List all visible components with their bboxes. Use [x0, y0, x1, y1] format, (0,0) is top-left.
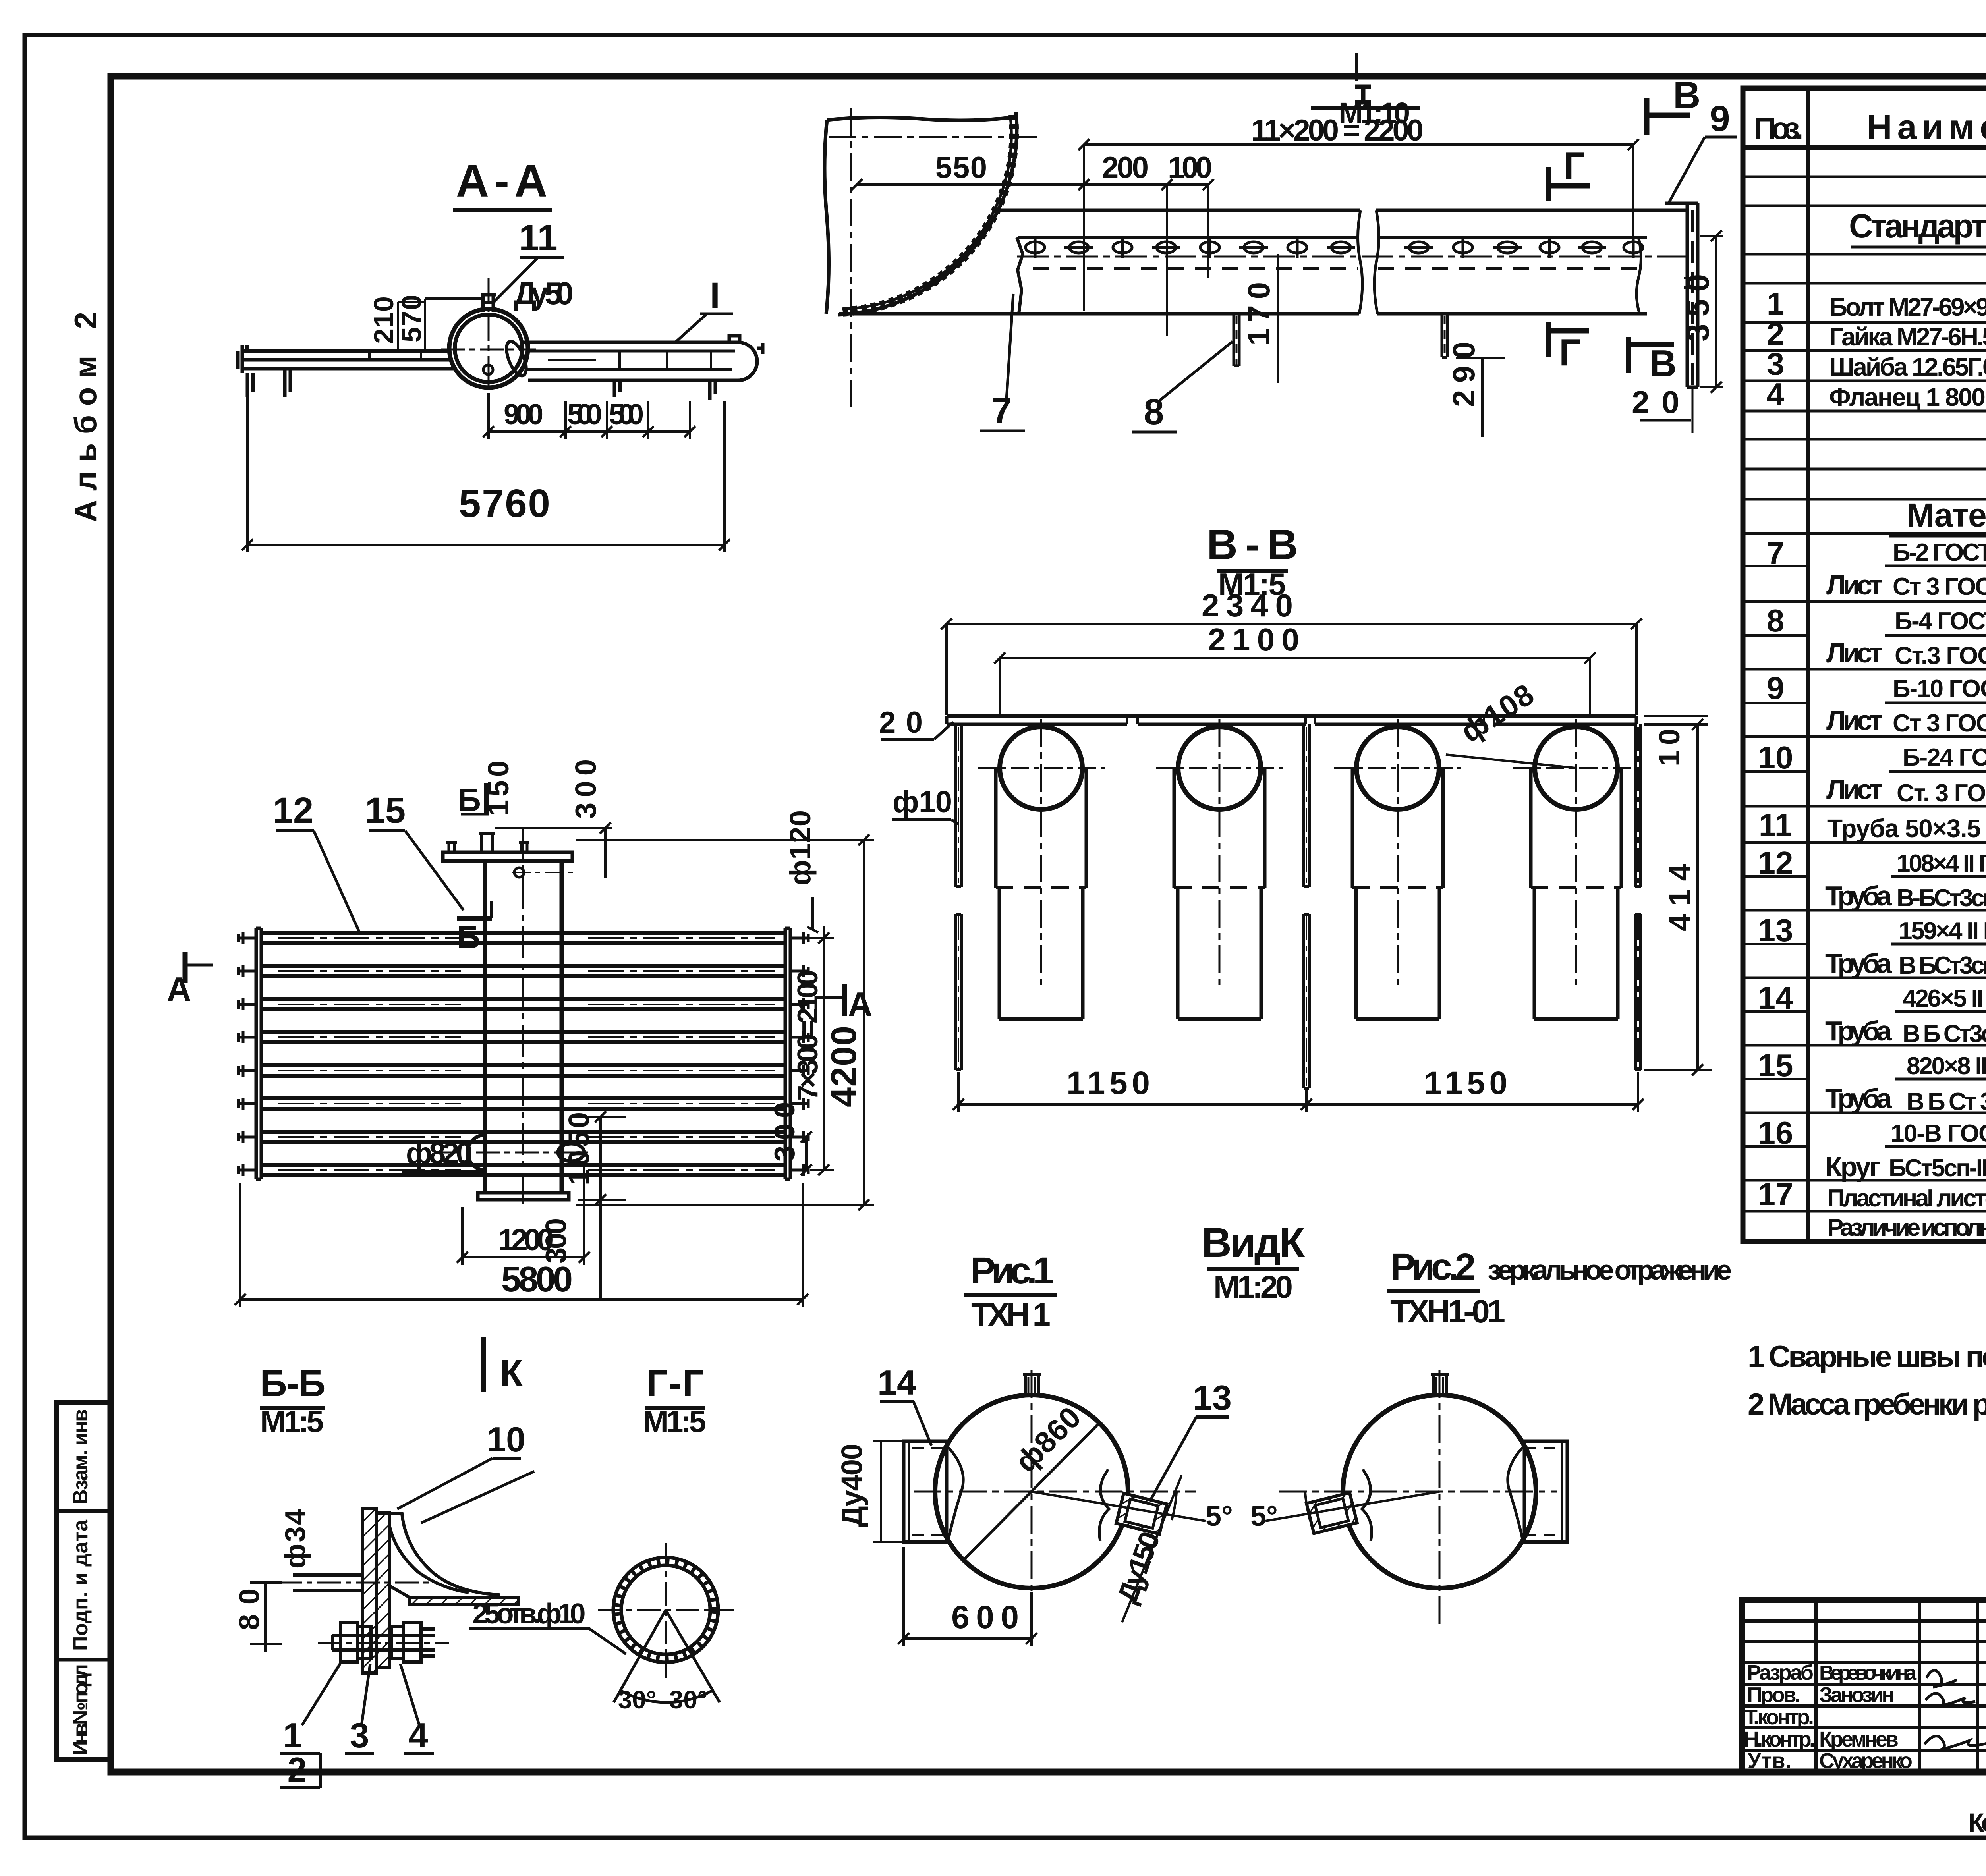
svg-text:10: 10	[1653, 729, 1686, 766]
pipe bottom edge	[839, 312, 1647, 316]
hidden line below holes	[1033, 267, 1644, 270]
svg-text:900: 900	[504, 399, 543, 430]
dim 1050 and 300 chain	[572, 1111, 626, 1299]
svg-text:Копировал: Боброва: Копировал: Боброва	[1968, 1808, 1986, 1837]
fig1 top stub	[1023, 1375, 1041, 1395]
bolt holes row	[1026, 237, 1643, 258]
fig2 centerlines	[1279, 1491, 1557, 1493]
svg-text:ф860: ф860	[1009, 1400, 1088, 1479]
main view tube row 5 right bolt	[790, 1065, 808, 1077]
section mark G upper	[1548, 167, 1590, 201]
svg-text:Фланец 1 800 2.5 Ст25ГОСТ12820: Фланец 1 800 2.5 Ст25ГОСТ12820-80	[1829, 383, 1986, 411]
svg-text:Стандартные изделия: Стандартные изделия	[1849, 207, 1986, 245]
spec table fraction bars	[1885, 566, 1986, 1146]
svg-text:Н.контр.: Н.контр.	[1744, 1727, 1815, 1751]
B-B tube unit 2 circle f108	[1178, 727, 1261, 809]
label 11 leader	[483, 257, 564, 303]
title block grid	[1742, 1600, 1986, 1772]
main view hole on column	[514, 868, 524, 877]
main view left header plate	[256, 928, 261, 1179]
main view tube row 2	[261, 966, 785, 976]
svg-text:Веревочкина: Веревочкина	[1819, 1662, 1917, 1685]
section mark G lower	[1548, 322, 1589, 357]
svg-text:Занозин: Занозин	[1819, 1683, 1895, 1707]
svg-text:350: 350	[1680, 274, 1716, 342]
svg-text:2100: 2100	[1208, 622, 1299, 657]
pipe centerline	[1017, 256, 1690, 258]
main view tube row 5	[261, 1065, 785, 1076]
main view tube row 3	[261, 999, 785, 1009]
label 7 leader	[1007, 294, 1013, 399]
centerline vertical of circle	[488, 278, 490, 409]
dim 1200	[457, 1166, 590, 1265]
svg-text:Труба: Труба	[1825, 880, 1892, 911]
fig1 inner wavy cut left	[947, 1446, 963, 1539]
svg-text:9: 9	[1710, 98, 1730, 139]
main view tube row 8 left bolt	[238, 1164, 256, 1176]
main view column shell pos15	[485, 861, 562, 1193]
left side plate	[956, 724, 961, 1070]
drain hole	[483, 365, 493, 374]
main view tube row 2 left bolt	[238, 965, 256, 977]
svg-text:500: 500	[609, 399, 644, 430]
svg-text:500: 500	[567, 399, 602, 430]
svg-text:А: А	[848, 986, 872, 1023]
fig2 inner wavy cut right	[1508, 1446, 1524, 1539]
svg-text:Б-10 ГОСТ 19903-74: Б-10 ГОСТ 19903-74	[1893, 675, 1986, 703]
svg-text:9: 9	[1767, 670, 1785, 706]
dim 300 right lower	[801, 1131, 812, 1175]
svg-text:30°: 30°	[669, 1685, 708, 1714]
svg-text:159×4 II ГОСТ 10704-76: 159×4 II ГОСТ 10704-76	[1899, 917, 1986, 945]
dim 300 top	[495, 822, 612, 878]
svg-text:16: 16	[1758, 1115, 1793, 1150]
svg-text:5°: 5°	[1206, 1500, 1233, 1532]
svg-text:15: 15	[365, 790, 406, 831]
svg-text:14: 14	[877, 1363, 916, 1402]
left stamp strip	[57, 1402, 111, 1760]
main view tube row 3 left bolt	[238, 998, 256, 1010]
svg-text:1: 1	[283, 1716, 303, 1755]
svg-text:570: 570	[396, 295, 427, 342]
fig1 centerlines	[914, 1491, 1196, 1493]
main view tube row 7	[261, 1132, 785, 1142]
svg-text:210: 210	[368, 296, 399, 344]
elbow centerline horizontal	[829, 136, 1041, 138]
svg-text:ПластинаI лист-ТМКЩ-М-3 ГОСТ 7: ПластинаI лист-ТМКЩ-М-3 ГОСТ 7338-77	[1827, 1185, 1986, 1212]
svg-text:12: 12	[273, 790, 313, 831]
svg-text:Круг: Круг	[1825, 1151, 1881, 1182]
label 9 leader	[1668, 137, 1737, 204]
svg-text:3: 3	[350, 1716, 369, 1755]
main view left half-round nozzle	[468, 1135, 485, 1170]
svg-text:ф34: ф34	[280, 1509, 311, 1569]
trumpet flare	[389, 1514, 518, 1605]
svg-text:10-В ГОСТ 2590-71: 10-В ГОСТ 2590-71	[1891, 1120, 1986, 1147]
pipe ring section	[613, 1558, 718, 1662]
dim 290	[1456, 358, 1505, 437]
svg-text:В Б Ст3сп ГОСТ 10705-80: В Б Ст3сп ГОСТ 10705-80	[1903, 1020, 1986, 1048]
leader to flare	[421, 1471, 534, 1523]
B-B tube unit 4 socket upper	[1531, 767, 1621, 888]
svg-text:Лист: Лист	[1826, 705, 1883, 736]
svg-text:Материалы: Материалы	[1907, 496, 1986, 534]
fig2 right nozzle Du400	[1524, 1441, 1567, 1542]
svg-text:25отв.ф10: 25отв.ф10	[473, 1598, 586, 1630]
svg-text:2 Масса гребенки распределител: 2 Масса гребенки распределительной - 159…	[1748, 1388, 1986, 1421]
slots on left bar	[342, 351, 421, 360]
main view right header plate	[785, 928, 790, 1179]
svg-text:Ст 3 ГОСТ 14637-79: Ст 3 ГОСТ 14637-79	[1893, 710, 1986, 737]
svg-text:17: 17	[1758, 1177, 1793, 1212]
section mark B bottom	[457, 916, 492, 921]
fig1 600 dim	[898, 1547, 1037, 1646]
svg-text:5°: 5°	[1250, 1500, 1278, 1532]
svg-text:300: 300	[769, 1102, 801, 1162]
svg-text:ф10: ф10	[893, 785, 952, 819]
svg-text:Лист: Лист	[1826, 774, 1883, 805]
fig2 lower-left nozzle Du150	[1306, 1493, 1357, 1534]
svg-text:ф108: ф108	[1455, 677, 1540, 749]
svg-text:150: 150	[482, 760, 515, 816]
main view tube row 5 left bolt	[238, 1065, 256, 1077]
section mark B upper	[1647, 98, 1690, 135]
svg-text:Кремнев: Кремнев	[1819, 1727, 1899, 1751]
svg-text:108×4 II ГОСТ 10704-76: 108×4 II ГОСТ 10704-76	[1897, 850, 1986, 877]
main view tube row 6 right bolt	[790, 1098, 808, 1110]
comb bar left end plate	[238, 345, 247, 373]
svg-text:Рис.1: Рис.1	[970, 1250, 1054, 1292]
pipe top edge	[995, 209, 1687, 212]
svg-text:Г: Г	[1563, 145, 1585, 187]
svg-text:Утв.: Утв.	[1748, 1749, 1791, 1773]
svg-text:В: В	[1649, 342, 1677, 385]
pipe break marks	[1358, 210, 1641, 314]
svg-text:Г-Г: Г-Г	[647, 1363, 704, 1405]
comb bar left part	[241, 351, 453, 369]
main view tube row 1	[261, 933, 785, 943]
main view tube row 2 right bolt	[790, 965, 808, 977]
main view nozzle centerline	[437, 1152, 592, 1154]
svg-text:7: 7	[1767, 535, 1785, 571]
dim 5760	[242, 397, 730, 552]
section mark A right	[842, 984, 847, 1016]
tube I inner slots	[548, 351, 711, 369]
fig2 top stub	[1431, 1375, 1449, 1395]
B-B tube unit 3 centerlines	[1397, 719, 1399, 989]
svg-text:Ду 50: Ду 50	[514, 276, 574, 311]
svg-text:4200: 4200	[824, 1026, 864, 1107]
svg-text:Б: Б	[458, 782, 481, 818]
svg-text:8: 8	[1144, 392, 1164, 432]
section mark B lower	[1629, 337, 1674, 373]
fig1 f860 diameter	[964, 1421, 1101, 1559]
svg-text:Ст.3 ГОСТ 14637-79: Ст.3 ГОСТ 14637-79	[1895, 642, 1986, 670]
svg-text:Болт М27-69×90.58.01 ГОСТ 7798: Болт М27-69×90.58.01 ГОСТ 7798-70	[1829, 293, 1986, 321]
svg-text:15: 15	[1758, 1048, 1793, 1083]
svg-text:Лист: Лист	[1826, 637, 1883, 668]
svg-text:Сухаренко: Сухаренко	[1819, 1749, 1913, 1773]
svg-text:Взам. инв: Взам. инв	[69, 1409, 92, 1504]
dim 414 right	[1644, 719, 1712, 1075]
detail I title	[1355, 87, 1371, 102]
rib 1	[1234, 314, 1239, 366]
svg-text:Б: Б	[457, 919, 480, 955]
svg-text:Труба: Труба	[1825, 1015, 1892, 1046]
svg-text:11: 11	[1759, 807, 1793, 843]
B-B tube unit 1 socket upper	[996, 767, 1086, 888]
svg-text:ТХН1-01: ТХН1-01	[1390, 1293, 1505, 1330]
nozzle Du50 stub on top	[481, 295, 496, 312]
svg-text:12: 12	[1758, 845, 1793, 880]
dim 350	[1700, 230, 1723, 393]
ring centerlines	[598, 1609, 734, 1611]
detail mark I leader	[675, 314, 733, 342]
B-B tube unit 2 socket upper	[1174, 767, 1265, 888]
svg-text:Лист: Лист	[1826, 569, 1883, 600]
main view top flange	[443, 843, 572, 861]
svg-text:Т.контр.: Т.контр.	[1745, 1705, 1814, 1729]
svg-text:Пров.: Пров.	[1747, 1683, 1801, 1707]
fig2 5deg angle	[1265, 1492, 1439, 1521]
svg-text:200: 200	[1102, 151, 1149, 185]
view A-A title underline	[453, 208, 552, 212]
svg-text:Гайка М27-6Н.5.01 ГОСТ 5915-70: Гайка М27-6Н.5.01 ГОСТ 5915-70	[1829, 322, 1986, 351]
shell circle d820	[449, 309, 528, 388]
svg-text:В БСт3сп ГОСТ 10705-80: В БСт3сп ГОСТ 10705-80	[1899, 952, 1986, 979]
svg-text:М1:20: М1:20	[1213, 1269, 1293, 1305]
svg-text:ТХН 1: ТХН 1	[971, 1297, 1051, 1333]
svg-text:20: 20	[1632, 384, 1679, 420]
svg-text:Рис.2: Рис.2	[1391, 1246, 1476, 1288]
main view tube row 6 left bolt	[238, 1098, 256, 1110]
section mark B top	[484, 783, 489, 814]
main view tube row 7 left bolt	[238, 1131, 256, 1143]
main view tube row 8	[261, 1165, 785, 1175]
svg-text:В Б Ст 3сп ГОСТ 10705-80: В Б Ст 3сп ГОСТ 10705-80	[1907, 1088, 1986, 1116]
svg-text:Ст 3 ГОСТ 16523-70: Ст 3 ГОСТ 16523-70	[1893, 573, 1986, 600]
svg-text:А - А: А - А	[456, 156, 547, 207]
dim 900 500 500	[483, 393, 695, 439]
svg-text:Ду400: Ду400	[835, 1444, 868, 1527]
B-B tube unit 3 socket upper	[1352, 767, 1443, 888]
svg-text:11×200 = 2200: 11×200 = 2200	[1251, 114, 1424, 147]
svg-text:Труба: Труба	[1825, 1083, 1892, 1114]
svg-text:В-В: В-В	[1207, 520, 1298, 568]
svg-text:1150: 1150	[1424, 1065, 1507, 1101]
B-B tube unit 1 pipe lower	[999, 888, 1083, 1019]
view K arrow mark	[481, 1337, 486, 1392]
dim 210 570	[373, 299, 481, 351]
svg-text:14: 14	[1758, 980, 1793, 1015]
spec table grid	[1743, 88, 1986, 1241]
signatures (squiggles)	[1924, 1670, 1986, 1751]
svg-text:20: 20	[879, 706, 923, 739]
svg-text:Б-4 ГОСТ 19903-74: Б-4 ГОСТ 19903-74	[1895, 608, 1986, 635]
svg-text:300: 300	[569, 759, 602, 819]
svg-text:зеркальное отражение: зеркальное отражение	[1488, 1255, 1732, 1285]
svg-text:М1:5: М1:5	[643, 1404, 706, 1439]
fig2 shell circle	[1343, 1395, 1536, 1588]
bolt studs below bar	[247, 369, 290, 397]
svg-text:Различие исполнений по Рис 1 и: Различие исполнений по Рис 1 и Рис 2.	[1827, 1214, 1986, 1241]
svg-text:1150: 1150	[1066, 1065, 1150, 1101]
B-B tube unit 1 centerlines	[1040, 719, 1042, 989]
top plate strip	[947, 716, 1636, 724]
main view tube row 6	[261, 1098, 785, 1109]
bolt and nut	[332, 1622, 435, 1662]
svg-text:80: 80	[234, 1588, 265, 1630]
svg-text:820×8 II ГОСТ 10704-76: 820×8 II ГОСТ 10704-76	[1907, 1052, 1986, 1080]
svg-text:2: 2	[288, 1750, 307, 1789]
elbow pipe piece top-left	[825, 112, 1017, 315]
svg-text:Б-24 ГОСТ 1990 3-74: Б-24 ГОСТ 1990 3-74	[1903, 744, 1986, 771]
centerline horizontal of circle	[441, 349, 536, 351]
svg-text:ВидК: ВидК	[1202, 1220, 1305, 1266]
svg-text:Ст. 3 ГОСТ 14637-79: Ст. 3 ГОСТ 14637-79	[1897, 780, 1986, 807]
fig2 wavy cut left	[1362, 1469, 1372, 1541]
B-B tube unit 4 centerlines	[1575, 719, 1577, 989]
svg-text:Наименование: Наименование	[1867, 107, 1986, 147]
B-B tube unit 3 circle f108	[1356, 727, 1439, 809]
section mark A left	[183, 952, 188, 983]
svg-text:100: 100	[1168, 151, 1212, 185]
svg-text:Б-Б: Б-Б	[260, 1363, 326, 1405]
main view tube row 1 left bolt	[238, 932, 256, 944]
svg-text:Альбом 2: Альбом 2	[68, 312, 103, 522]
main view tube row 3 right bolt	[790, 998, 808, 1010]
svg-text:ф820: ф820	[406, 1137, 473, 1170]
svg-text:13: 13	[1193, 1378, 1232, 1417]
svg-text:8: 8	[1767, 603, 1785, 638]
svg-text:БСт5сп-II-ГОСТ 535-79: БСт5сп-II-ГОСТ 535-79	[1889, 1154, 1986, 1182]
main view tube row 1 right bolt	[790, 932, 808, 944]
B-B tube unit 2 pipe lower	[1178, 888, 1261, 1019]
svg-text:Поз.: Поз.	[1754, 111, 1804, 146]
elbow torn edge hatch band	[840, 115, 1014, 312]
main view right oval nozzle	[558, 1144, 584, 1161]
svg-text:13: 13	[1758, 913, 1793, 948]
svg-text:426×5 II ГОСТ 10704-76: 426×5 II ГОСТ 10704-76	[1903, 985, 1986, 1012]
svg-text:Инв.№ подл: Инв.№ подл	[69, 1664, 92, 1755]
right end cap stud	[729, 336, 763, 354]
fig1 5deg angle	[1032, 1492, 1206, 1521]
sheet fold mark	[1355, 53, 1358, 81]
label 8 leader	[1158, 342, 1233, 402]
svg-text:290: 290	[1446, 342, 1481, 407]
fig1 shell circle	[935, 1395, 1128, 1588]
svg-text:Разраб: Разраб	[1747, 1661, 1814, 1685]
svg-text:1200: 1200	[498, 1223, 554, 1257]
tube I inner lines	[527, 351, 735, 369]
B-B tube unit 4 pipe lower	[1534, 888, 1618, 1019]
main view tube row 4 right bolt	[790, 1031, 808, 1043]
elbow centerline vertical	[850, 108, 852, 413]
svg-text:В: В	[1673, 74, 1700, 116]
svg-text:1050: 1050	[562, 1112, 595, 1185]
B-B tube unit 2 centerlines	[1219, 719, 1221, 989]
fig1 left nozzle Du400	[904, 1441, 947, 1542]
spec table mid split lines of double rows	[1743, 566, 1986, 1146]
right flange plate	[1665, 203, 1698, 433]
main view tube row 4 left bolt	[238, 1031, 256, 1043]
svg-text:550: 550	[935, 151, 987, 185]
svg-text:К: К	[500, 1352, 523, 1394]
middle side plate	[1304, 724, 1309, 1088]
angle 30 30 lines	[614, 1610, 720, 1702]
svg-text:I: I	[710, 275, 720, 316]
svg-text:Труба 50×3.5 ГОСТ 3262-75: Труба 50×3.5 ГОСТ 3262-75	[1827, 814, 1986, 843]
svg-text:Б-2 ГОСТ 19903-74: Б-2 ГОСТ 19903-74	[1893, 539, 1986, 566]
fig1 wavy cut right	[1099, 1469, 1109, 1541]
svg-text:А: А	[167, 971, 191, 1008]
plate top edge	[1017, 237, 1647, 314]
svg-text:В-БСт3сп ГОСТ 10705-80: В-БСт3сп ГОСТ 10705-80	[1897, 884, 1986, 912]
right side plate	[1635, 724, 1641, 1070]
svg-text:414: 414	[1662, 864, 1697, 931]
main view tube row 7 right bolt	[790, 1131, 808, 1143]
flange hidden bolt dashes	[1684, 278, 1701, 288]
flange disc hatched	[363, 1508, 389, 1673]
svg-text:Шайба 12.65Г.01 ГОСТ 6402-70: Шайба 12.65Г.01 ГОСТ 6402-70	[1829, 353, 1986, 381]
main view tube row 4	[261, 1032, 785, 1042]
dim 4200	[576, 834, 874, 1210]
fig1 lower-right nozzle Du150	[1116, 1493, 1167, 1534]
rib 2	[1442, 314, 1447, 357]
svg-text:4: 4	[1767, 376, 1785, 412]
dim 7x300=2100	[794, 926, 834, 1175]
bolt stub left	[293, 1575, 363, 1590]
svg-text:5760: 5760	[459, 481, 550, 526]
svg-text:Труба: Труба	[1825, 948, 1892, 979]
dim 170	[1277, 254, 1279, 383]
svg-text:М1:5: М1:5	[260, 1404, 324, 1439]
dim 5800	[235, 1183, 808, 1307]
svg-text:11: 11	[519, 218, 557, 258]
svg-text:Ду150: Ду150	[1111, 1527, 1166, 1607]
svg-text:7: 7	[991, 390, 1012, 431]
B-B tube unit 3 pipe lower	[1356, 888, 1439, 1019]
main view column centerline	[522, 828, 524, 1207]
svg-text:5800: 5800	[501, 1260, 573, 1299]
main view top stub pos Б	[479, 833, 495, 852]
svg-text:30°: 30°	[618, 1685, 657, 1714]
B-B tube unit 4 circle f108	[1535, 727, 1617, 809]
B-B tube unit 1 circle f108	[1000, 727, 1082, 809]
svg-text:170: 170	[1241, 282, 1276, 345]
main view bottom flange	[478, 1193, 569, 1200]
dim 1150 1150 bottom	[953, 1072, 1644, 1112]
svg-text:10: 10	[487, 1420, 525, 1459]
tube I right stadium outline	[520, 342, 757, 380]
svg-text:600: 600	[951, 1599, 1019, 1635]
svg-text:Подп. и дата: Подп. и дата	[69, 1519, 92, 1651]
svg-text:1 Сварные швы по ГОСТ 16037-80: 1 Сварные швы по ГОСТ 16037-80	[1748, 1340, 1986, 1374]
svg-text:7×300=2100: 7×300=2100	[792, 970, 824, 1101]
svg-text:Г: Г	[1559, 331, 1580, 374]
tube I end lens inside circle	[502, 339, 530, 378]
svg-text:10: 10	[1758, 740, 1793, 775]
svg-text:ф120: ф120	[784, 810, 817, 886]
main view tube row 8 right bolt	[790, 1164, 808, 1176]
